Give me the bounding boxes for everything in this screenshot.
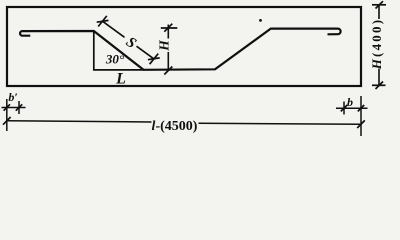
svg-text:b′: b′ <box>8 90 17 104</box>
svg-text:H(400): H(400) <box>369 18 384 70</box>
svg-text:H: H <box>156 40 171 52</box>
svg-text:L: L <box>115 71 126 88</box>
svg-text:30°: 30° <box>105 52 125 67</box>
svg-text:l-(4500): l-(4500) <box>152 119 198 134</box>
svg-text:b: b <box>347 95 353 109</box>
svg-text:S: S <box>123 34 139 52</box>
